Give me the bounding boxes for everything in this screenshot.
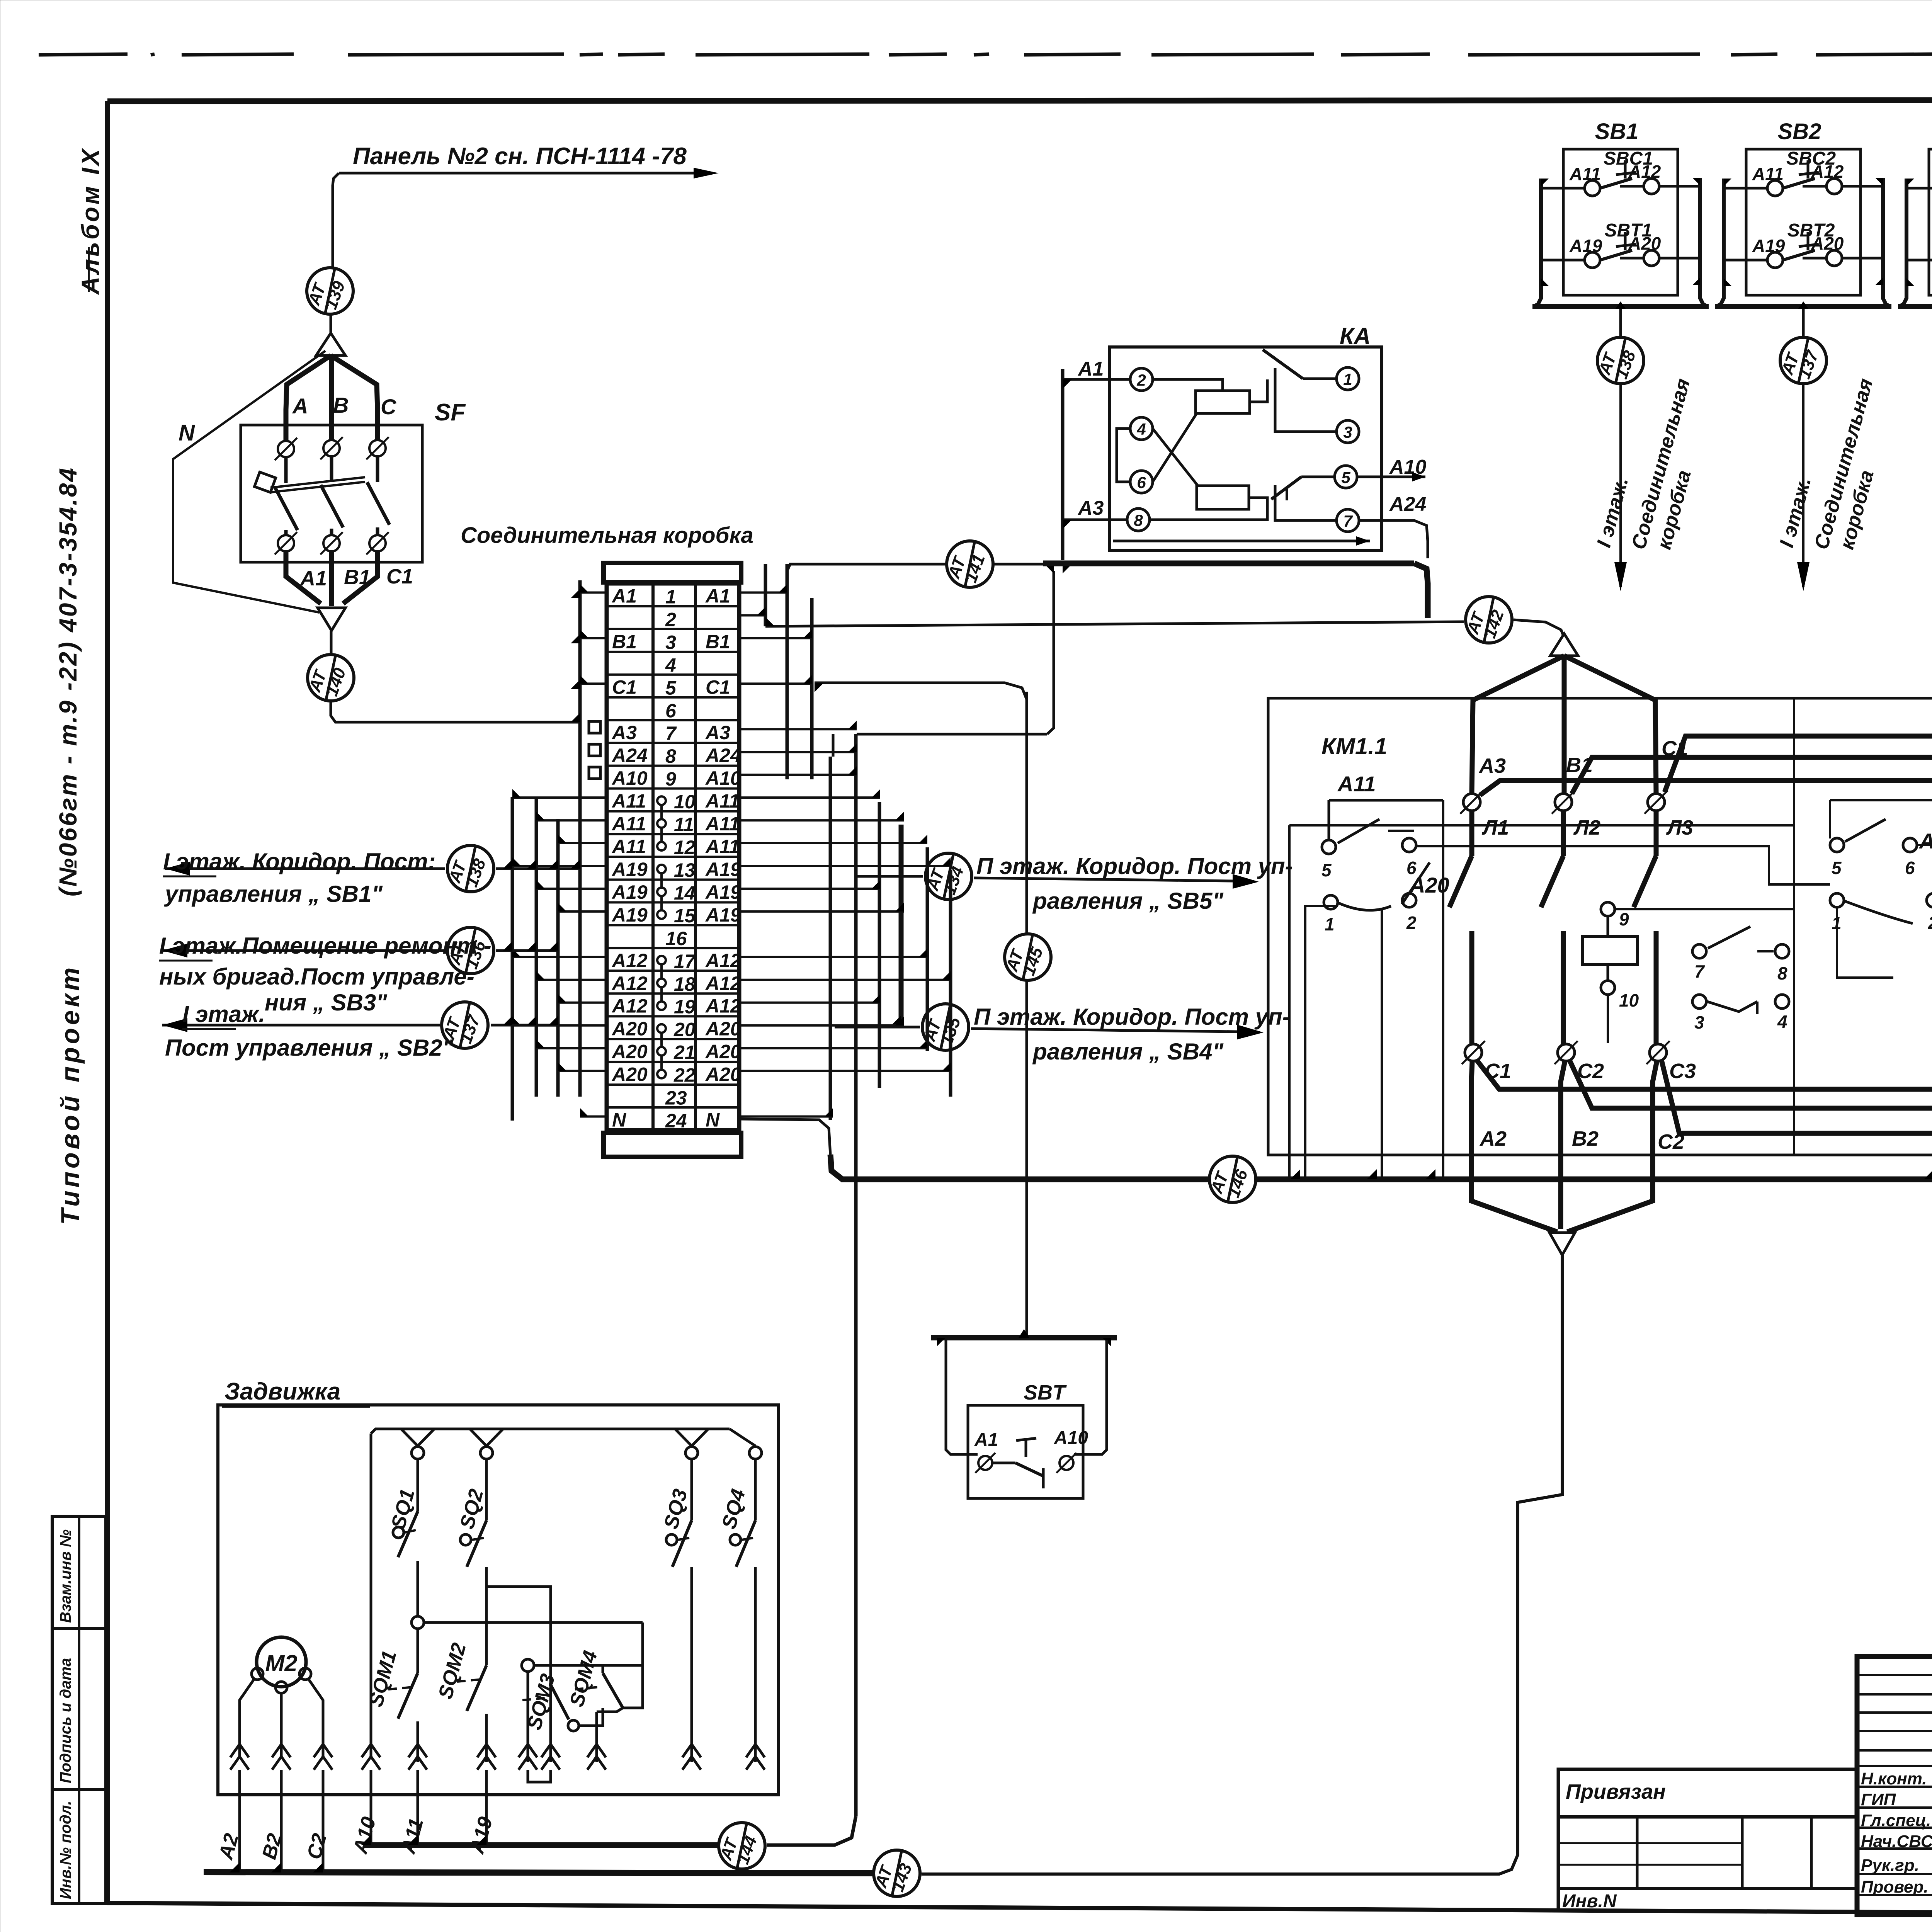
svg-text:В1: В1 (706, 631, 730, 652)
terminal row 20 А20 (611, 1018, 741, 1047)
valve unit Задвижка box (218, 1405, 779, 1795)
title block left extension Привязан (1558, 1769, 1857, 1912)
label Соединительная коробка (461, 523, 753, 548)
neutral N bypass wire (173, 351, 325, 612)
pushbutton station SB3 box (1929, 119, 1932, 295)
svg-text:5: 5 (1832, 858, 1842, 878)
svg-text:I этаж.Помещение ремонт -: I этаж.Помещение ремонт - (159, 933, 492, 959)
svg-text:2: 2 (1136, 371, 1146, 389)
thick link bus Л3 (1665, 736, 1932, 792)
wire АТ135 П этаж SB4 (835, 1025, 1264, 1039)
KM1 phase feeder fan wires (1472, 656, 1656, 794)
left bus wire L1 (511, 797, 514, 1121)
svg-text:А3: А3 (1478, 754, 1506, 777)
svg-text:4: 4 (1777, 1012, 1787, 1032)
right bus wire R5 / riser to АТ144 (767, 734, 856, 1845)
wire triangle to AT140 (330, 631, 333, 656)
svg-text:А19: А19 (705, 904, 741, 926)
svg-text:Типовой проект: Типовой проект (56, 964, 85, 1225)
left margin rotated text Альбом IX (77, 147, 104, 295)
terminal row 10 А11 (611, 790, 740, 819)
cable SB1 down wire with arrow (1614, 384, 1627, 591)
svg-text:4: 4 (665, 654, 676, 676)
svg-text:А1: А1 (974, 1430, 998, 1450)
KM1.1 aux contact 7-8 (1692, 927, 1789, 983)
converging wires A1 B1 C1 to lower triangle (286, 551, 378, 606)
cable marker АТ 134 (923, 853, 972, 900)
label А24 at KA (1389, 493, 1426, 515)
svg-text:П этаж. Коридор. Пост уп-: П этаж. Коридор. Пост уп- (974, 1004, 1290, 1030)
SB1 outer bracket wiring (1532, 178, 1709, 306)
svg-text:А11: А11 (1337, 772, 1376, 796)
svg-text:А11: А11 (705, 836, 740, 857)
SBT contact symbol (992, 1438, 1043, 1488)
SB3 outer bracket wiring (1898, 178, 1932, 306)
wire row2 to АТ142 (765, 617, 1464, 626)
svg-text:А1: А1 (299, 567, 327, 590)
terminal row 4 (665, 654, 676, 676)
cable marker АТ 140 (305, 655, 354, 701)
svg-text:23: 23 (665, 1087, 687, 1109)
right bus wire R2 (786, 564, 789, 779)
terminal row 11 А11 (611, 813, 740, 842)
right bus wire R8 (926, 847, 929, 1051)
label I этаж Пост управления SB2 (165, 1001, 454, 1061)
button contact SBT1 (А19-А20) (1541, 220, 1700, 268)
terminal row 7 А3 (611, 722, 730, 744)
svg-text:С3: С3 (1669, 1060, 1696, 1083)
right bus wire R6 (878, 802, 881, 1088)
KM1.1 aux contact А20 1-2 (1324, 862, 1449, 934)
svg-text:9: 9 (1619, 909, 1629, 929)
KA pin 3 (1337, 420, 1359, 443)
motor switch SQM1 (365, 1629, 418, 1762)
label В1 (344, 566, 371, 589)
terminal row 6 (665, 700, 677, 721)
KM1.1 aux contact 3-4 (1692, 995, 1789, 1032)
SB2 outer bracket wiring (1715, 178, 1891, 306)
thick supply wire АТ141 to KA and KM1 (994, 563, 1428, 618)
SBT feeder bus (931, 1329, 1117, 1346)
left row stub wires (512, 584, 607, 1116)
valve bus drop SQ1 terminal (401, 1429, 434, 1459)
wire junction box to АТ141 (787, 564, 946, 571)
KM1.1 pole Л1 (1449, 791, 1509, 1044)
KA pin 4 (1130, 417, 1153, 440)
svg-text:А19: А19 (705, 859, 741, 880)
motor switch SQM2 (434, 1604, 486, 1762)
label С2 (output) (1658, 1130, 1684, 1153)
label N (179, 420, 195, 446)
svg-text:11: 11 (674, 814, 694, 835)
svg-text:15: 15 (674, 905, 696, 927)
svg-text:Соединительная коробка: Соединительная коробка (461, 523, 753, 548)
svg-text:17: 17 (674, 951, 696, 972)
svg-text:Л3: Л3 (1666, 816, 1693, 839)
KM1.1 coil (1583, 902, 1794, 1043)
svg-text:2: 2 (665, 609, 676, 630)
label П этаж Коридор Пост управления SB5 (976, 853, 1293, 914)
title block signature rows (1861, 1768, 1932, 1918)
wire row7 А3 to KA relay (857, 571, 1054, 734)
wire bus R5 up to AT141 node (832, 734, 835, 757)
svg-text:N: N (612, 1109, 626, 1131)
label С1 (386, 565, 413, 588)
KM1.1 pole Л2 (1541, 791, 1600, 1044)
wire from bus to АТ145 vertical (815, 683, 1027, 699)
terminal row 23 (665, 1087, 687, 1109)
KM1.1 pole Л3 (1634, 791, 1693, 1044)
terminal row 3 В1 (612, 631, 730, 653)
svg-text:18: 18 (674, 973, 696, 995)
cable end triangle (KM1 output) (1549, 1233, 1575, 1255)
svg-text:1: 1 (1325, 914, 1335, 934)
svg-text:Взам.инв №: Взам.инв № (57, 1529, 74, 1623)
svg-text:SF: SF (435, 399, 466, 426)
cable end triangle (KM1 feed) (1550, 634, 1578, 656)
svg-text:19: 19 (674, 996, 696, 1018)
page top dashed edge line (39, 54, 1932, 55)
left bus wire L2 (535, 797, 538, 1097)
button contact SBC2 (А11-А12) (1724, 148, 1883, 196)
svg-text:А12: А12 (705, 973, 741, 994)
button contact SBC1 (А11-А12) (1541, 148, 1700, 196)
wire to control post SB3 with arrow (162, 944, 559, 957)
cable marker АТ 138 (1595, 337, 1644, 384)
svg-text:А11: А11 (705, 790, 740, 812)
svg-text:А10: А10 (611, 767, 648, 789)
KA pin 8 (1127, 509, 1150, 531)
SF pole C top terminal (366, 437, 389, 482)
svg-text:А24: А24 (1389, 493, 1426, 515)
cable marker АТ 144 (716, 1823, 765, 1869)
cable marker АТ 137 (1778, 337, 1827, 384)
terminal row 8 А24 (611, 745, 741, 767)
svg-text:А3: А3 (705, 722, 730, 743)
label А2 (1479, 1127, 1507, 1150)
right bus wire R9 (949, 870, 952, 1097)
motor switch SQM4 (566, 1648, 643, 1762)
valve bus drop SQ4 terminal (730, 1429, 762, 1459)
svg-text:ных бригад.Пост управле-: ных бригад.Пост управле- (159, 964, 474, 990)
svg-text:Инв.№ подл.: Инв.№ подл. (57, 1801, 74, 1899)
svg-text:7: 7 (1343, 512, 1353, 530)
svg-text:А3: А3 (1077, 497, 1104, 519)
terminal row 17 А12 (611, 950, 741, 979)
svg-text:Л2: Л2 (1573, 816, 1600, 839)
KM1.1 terminal С1 (1462, 1041, 1511, 1083)
cable end triangle (top) (316, 333, 345, 355)
svg-text:П этаж. Коридор. Пост уп-: П этаж. Коридор. Пост уп- (976, 853, 1293, 879)
SF pole C bottom terminal (366, 527, 389, 554)
svg-text:8: 8 (1134, 511, 1143, 529)
wire SB2 to cable marker (1798, 301, 1809, 337)
valve bus drop SQ2 terminal (470, 1429, 503, 1459)
valve bus drop SQ3 terminal (675, 1429, 708, 1459)
valve top bus (371, 1429, 730, 1434)
svg-text:I этаж.: I этаж. (182, 1001, 265, 1027)
svg-text:6: 6 (665, 700, 677, 721)
left bus wire L4 (578, 580, 582, 1097)
svg-text:А24: А24 (611, 745, 648, 766)
svg-text:Панель №2 сн. ПСН-1114 -78: Панель №2 сн. ПСН-1114 -78 (353, 143, 687, 170)
limit switch SQ3 (660, 1459, 692, 1762)
svg-text:2: 2 (1928, 913, 1932, 933)
svg-text:5: 5 (665, 677, 677, 699)
cable marker АТ 141 (944, 541, 993, 587)
label А19 (cable) (466, 1815, 497, 1857)
label А2 (cable) (214, 1831, 243, 1862)
label I этаж Помещение ремонтных бригад Пост управления SB3 (159, 933, 492, 1015)
label П этаж Коридор Пост управления SB4 (974, 1004, 1290, 1065)
svg-text:4: 4 (1136, 420, 1146, 438)
svg-text:М2: М2 (265, 1650, 297, 1676)
svg-text:Альбом IX: Альбом IX (77, 147, 104, 295)
label С2 (cable) (303, 1831, 331, 1862)
svg-text:А24: А24 (705, 745, 741, 766)
svg-text:5: 5 (1341, 468, 1350, 486)
cable end triangle (to AT140) (318, 608, 345, 631)
svg-text:А11: А11 (705, 813, 740, 835)
svg-text:14: 14 (674, 882, 696, 904)
label В2 (cable) (258, 1831, 286, 1862)
cable marker АТ 137 (439, 1002, 488, 1048)
svg-text:А3: А3 (611, 722, 637, 743)
wire AT140 to junction box bus (331, 701, 580, 722)
svg-text:6: 6 (1137, 473, 1146, 492)
SF pole B bottom terminal (320, 529, 343, 554)
svg-text:7: 7 (1694, 961, 1705, 981)
bottom-left stamp box Взам.инв № (52, 1516, 106, 1628)
svg-text:N: N (179, 420, 195, 446)
svg-text:Нач.СВС: Нач.СВС (1861, 1832, 1932, 1851)
frame bottom right segment (1857, 1912, 1932, 1916)
right row stub wires (739, 584, 951, 1116)
svg-text:Пост управления „ SB2": Пост управления „ SB2" (165, 1035, 454, 1061)
svg-text:С1: С1 (706, 676, 730, 698)
svg-text:равления „ SB4": равления „ SB4" (1032, 1039, 1224, 1065)
pole link wire C1-C1 (1477, 1054, 1932, 1089)
svg-text:А: А (292, 394, 308, 418)
wire АТ142 to KM1 feed triangle (1514, 620, 1563, 636)
svg-text:А11: А11 (611, 790, 646, 812)
terminal row 13 А19 (611, 859, 741, 888)
svg-text:А24: А24 (1918, 829, 1932, 853)
svg-text:7: 7 (665, 723, 677, 744)
KA coil 2 (1197, 486, 1249, 509)
terminal row 22 А20 (611, 1064, 741, 1086)
KM1 internal divider wire (1793, 698, 1795, 1155)
label I этаж Коридор Пост управления SB1 (163, 849, 435, 907)
KA coil 1 (1196, 391, 1250, 413)
KA left supply bus (1063, 369, 1130, 560)
wire KM1 output down to AT143 bus (922, 1255, 1562, 1874)
svg-text:3: 3 (1343, 423, 1352, 441)
terminal row 9 А10 (611, 767, 741, 790)
svg-text:Провер.: Провер. (1861, 1878, 1928, 1896)
KA pin 6 (1130, 471, 1153, 493)
svg-text:5: 5 (1321, 860, 1332, 880)
button contact SBC3 (А11-А12) (1906, 148, 1932, 196)
right bus wire R3 (810, 598, 814, 779)
svg-text:А19: А19 (705, 881, 741, 903)
wire to control post SB2 with arrow (162, 1018, 559, 1032)
svg-text:А20: А20 (705, 1018, 741, 1040)
left bus junction wedges (503, 589, 580, 1025)
svg-text:А10: А10 (705, 767, 741, 789)
KA pin 1 (1337, 367, 1359, 390)
KA contact 5-7 (1271, 477, 1337, 520)
KA internal wiring (1117, 379, 1267, 520)
svg-text:SB1: SB1 (1595, 119, 1639, 144)
svg-text:В2: В2 (1572, 1127, 1599, 1150)
terminal row 2 (665, 609, 676, 630)
terminal row 24 N (612, 1109, 720, 1132)
label phase B (333, 393, 349, 417)
svg-text:А11: А11 (611, 836, 646, 857)
right bus wire R4 (829, 757, 832, 1120)
right bus wire R7 (889, 825, 901, 1027)
svg-text:2: 2 (1406, 913, 1417, 933)
KM1.1 aux wiring (1289, 800, 1830, 1179)
junction box terminal strip grid (607, 583, 739, 1130)
cable marker АТ 138 (445, 845, 494, 892)
thick link bus Л2 (1572, 757, 1932, 794)
pole link wire C2-C2 (1570, 1054, 1932, 1108)
svg-text:А12: А12 (705, 995, 741, 1017)
label phase C (381, 395, 397, 419)
svg-text:А20: А20 (611, 1064, 648, 1085)
label Задвижка (222, 1378, 370, 1406)
svg-text:А11: А11 (611, 813, 646, 835)
bottom-left stamp box Инв.№ подл. (52, 1789, 106, 1903)
label I этаж Соединительная коробка (SB2) (1776, 376, 1878, 552)
button contact SBT3 (А19-А20) (1906, 220, 1932, 268)
cable SB2 down wire with arrow (1797, 384, 1810, 591)
svg-text:10: 10 (674, 791, 696, 813)
valve junction node B (522, 1659, 643, 1762)
svg-text:SBT: SBT (1024, 1381, 1067, 1404)
SBT bracket wiring (946, 1340, 1107, 1454)
svg-text:6: 6 (1905, 858, 1915, 878)
svg-text:1: 1 (1343, 370, 1352, 388)
label А3 (1478, 754, 1506, 777)
wire А10 feeder vertical (370, 1434, 372, 1756)
SF crossbar linkage with handle (254, 472, 365, 493)
svg-text:Н.конт.: Н.конт. (1861, 1769, 1927, 1788)
label А10 at KA (1389, 456, 1426, 478)
svg-text:В1: В1 (1566, 753, 1593, 777)
svg-text:А19: А19 (611, 904, 648, 926)
cable marker АТ 139 (304, 268, 353, 314)
wire from panel label down to AT139 (333, 173, 425, 268)
pushbutton station SB1 box (1563, 119, 1678, 295)
limit switch SQ1 (387, 1459, 419, 1615)
svg-text:8: 8 (665, 745, 676, 767)
terminal row 16 (665, 928, 687, 949)
terminal row 18 А12 (611, 973, 741, 1002)
vertical wire through АТ145 (1026, 692, 1028, 1338)
svg-text:С1: С1 (612, 676, 637, 698)
motor M2 phase wires (240, 1679, 323, 1756)
svg-text:12: 12 (674, 837, 696, 858)
button contact SBT2 (А19-А20) (1724, 220, 1883, 268)
wire N row to bus corner (739, 1119, 830, 1155)
svg-text:Задвижка: Задвижка (224, 1378, 340, 1405)
svg-text:3: 3 (665, 631, 676, 653)
cable marker АТ 135 (920, 1004, 969, 1050)
svg-text:А10: А10 (1054, 1428, 1088, 1448)
svg-text:Привязан: Привязан (1566, 1780, 1666, 1803)
right bus wire R1 (764, 564, 767, 626)
SF pole A bottom terminal (275, 530, 297, 554)
label А1 (299, 567, 327, 590)
label А1 at KA (1077, 358, 1104, 380)
label В1 (1566, 753, 1593, 777)
terminal row 14 А19 (611, 881, 741, 910)
label В2 (1572, 1127, 1599, 1150)
svg-text:С2: С2 (1577, 1060, 1604, 1083)
svg-text:А1: А1 (611, 585, 637, 607)
label КМ1.1 (1321, 733, 1387, 759)
KM1.2 aux contact А24 5-6 (1830, 800, 1932, 878)
svg-text:А19: А19 (611, 859, 648, 880)
KM1.2 aux contact 1-2 (1830, 800, 1932, 1179)
svg-text:В1: В1 (612, 631, 637, 652)
label А11 (cable) (397, 1816, 428, 1857)
svg-text:В: В (333, 393, 349, 417)
terminal row 5 С1 (612, 676, 730, 699)
svg-text:управления „ SB1": управления „ SB1" (164, 881, 383, 907)
cable marker АТ 143 (871, 1850, 920, 1896)
valve cable arrows row (230, 1744, 765, 1770)
limit switch SQ4 (718, 1459, 755, 1762)
KA pin 7 (1337, 509, 1359, 532)
terminal row 19 А12 (611, 995, 741, 1018)
cable marker АТ 136 (445, 927, 494, 974)
KM1.1 terminal С2 (1554, 1041, 1604, 1083)
svg-text:А2: А2 (1479, 1127, 1507, 1150)
junction box header bar (604, 563, 741, 582)
svg-text:А1: А1 (1077, 358, 1104, 380)
svg-text:ния „ SB3": ния „ SB3" (265, 990, 388, 1015)
pole link wire C3-C3 (1662, 1054, 1932, 1133)
KM1.1 aux contact А11 5-6 (1321, 772, 1443, 880)
svg-text:С2: С2 (1658, 1130, 1684, 1153)
svg-text:Инв.N: Инв.N (1562, 1891, 1617, 1912)
svg-text:Л1: Л1 (1481, 816, 1509, 839)
label А10 (cable) (349, 1815, 380, 1857)
KA pin 5 (1335, 466, 1357, 488)
terminal row 21 А20 (611, 1041, 741, 1070)
svg-text:21: 21 (673, 1042, 696, 1063)
thick link bus Л1 (1480, 781, 1932, 795)
label КА (1340, 323, 1371, 349)
valve arrows link bracket (528, 1770, 551, 1782)
svg-text:КА: КА (1340, 323, 1371, 349)
svg-text:3: 3 (1694, 1012, 1704, 1032)
title block outer box (1857, 1656, 1932, 1915)
bus wire to АТ144 (361, 1835, 718, 1845)
left margin rotated text Типовой проект (№066гт-т.9-22)407-3-354.84 (54, 466, 85, 1225)
KA pin 2 (1130, 368, 1153, 391)
SF pole A top terminal (275, 438, 297, 483)
left bus wire L3 (556, 819, 560, 1097)
wire АТ134 П этаж SB5 (857, 874, 1259, 889)
cable marker АТ 142 (1463, 597, 1512, 643)
svg-text:9: 9 (665, 768, 676, 790)
svg-text:А20: А20 (705, 1041, 741, 1063)
